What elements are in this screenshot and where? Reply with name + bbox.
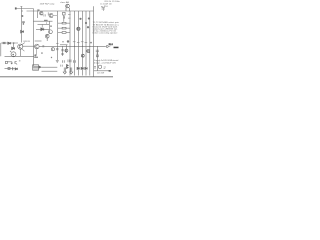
connector J1 input <box>15 7 17 9</box>
transistor Q3 <box>66 4 70 8</box>
wire vertical x74.5 <box>74 11 76 76</box>
wire x62.4 drop <box>61 46 63 56</box>
wire vertical x97.3 <box>96 46 98 71</box>
capacitor C2 <box>22 21 25 22</box>
wire y41 bias link <box>35 40 42 42</box>
transistor Q14 <box>87 50 90 53</box>
transistor Q11 <box>51 48 54 51</box>
capacitor C9 <box>96 50 99 51</box>
mark right of vertical <box>50 25 51 27</box>
ground bar under C6 <box>34 56 38 58</box>
wire vertical x63.8 <box>63 15 65 22</box>
svg-text:on R16: on R16 <box>101 6 109 8</box>
bar mark row2 <box>12 67 14 70</box>
transistor Q16 blob <box>79 18 81 20</box>
wire vertical x89.8 <box>89 11 91 76</box>
svg-text:before connecting speaker: before connecting speaker <box>93 32 118 35</box>
svg-text:10n 3W: 10n 3W <box>97 73 104 75</box>
diode D2 zener <box>41 28 44 31</box>
fuse F1 tiny <box>19 59 21 62</box>
transistor Q9 <box>18 44 23 49</box>
capacitor C5 electrolytic <box>11 52 16 57</box>
wire d1 row2 link <box>5 67 16 69</box>
resistor tick R20 <box>73 41 76 43</box>
mark x42 <box>41 52 42 54</box>
node D dot <box>62 41 63 42</box>
resistor tick R23 <box>85 42 88 44</box>
node A on input rail <box>22 10 23 11</box>
diode arrow A1 <box>63 68 66 75</box>
node H dot <box>51 57 52 58</box>
wire rail y24.4 <box>38 23 50 25</box>
resistor R11 <box>62 27 66 29</box>
resistor R1 zigzag <box>3 42 6 44</box>
diode D7 <box>77 67 79 69</box>
wire rail y29.4 <box>36 28 49 30</box>
node C junction <box>13 42 15 44</box>
resistor R12 <box>62 32 66 34</box>
rectifier bars <box>68 60 71 63</box>
transistor Q6 <box>45 34 49 38</box>
transistor Q8 on x78 <box>77 27 80 30</box>
diode D6 <box>39 66 41 68</box>
svg-text:class AB: class AB <box>60 1 69 4</box>
wire Q10 emitter drop <box>35 49 37 55</box>
wire x13.6 drop <box>13 43 15 48</box>
wire vertical x57.3 <box>56 11 58 60</box>
wire d1 row1 link <box>7 62 12 64</box>
resistor R5 on rail y21 <box>44 20 48 22</box>
wire input feed y43 <box>1 42 18 44</box>
wire vertical x33.4 <box>32 9 34 67</box>
wire vertical x86 <box>85 11 87 76</box>
transistor Q5 <box>49 30 53 34</box>
wire vertical x82.5 <box>82 11 84 76</box>
transistor Q1 <box>40 12 43 15</box>
transistor Q10 <box>35 44 40 49</box>
connector K1 row1 box <box>5 61 7 63</box>
terminal output circle <box>106 45 108 47</box>
wire vertical x70 <box>69 11 71 76</box>
transistor Q19 blob <box>88 18 90 20</box>
node F blob <box>90 42 92 44</box>
capacitor C6 on x33.4 <box>34 54 36 56</box>
diode D3 <box>8 42 11 44</box>
tick on rail <box>45 22 47 23</box>
resistor R24 under C9 <box>97 55 99 57</box>
resistor R4b <box>63 16 65 18</box>
switch S1 marks <box>15 61 17 64</box>
wire supply y67.2 <box>42 66 58 68</box>
capacitor C7 <box>61 50 63 51</box>
resistor R4 vertical <box>63 12 66 15</box>
svg-text:25W Hi-Fi amp: 25W Hi-Fi amp <box>40 3 55 5</box>
bridge BR1 triangles <box>67 64 69 66</box>
connector K2 row2 box <box>8 67 10 69</box>
svg-text:RL 8: RL 8 <box>109 44 113 46</box>
diode arrow A2 <box>70 68 73 75</box>
diode D4 <box>12 47 15 50</box>
node B dot <box>22 15 24 17</box>
transistor Q2 <box>49 14 53 18</box>
transistor Q13 <box>65 49 68 52</box>
wire vertical x78.5 <box>78 11 80 76</box>
wire y44.8 link <box>60 44 68 46</box>
border bottom line <box>0 76 113 78</box>
resistor tick R22 <box>81 41 84 43</box>
wire input line <box>17 8 34 10</box>
transistor Q18 blob <box>87 26 89 28</box>
wire vertical x37.5 <box>37 11 39 18</box>
resistor tick R21 <box>77 42 80 44</box>
transformer T1 winding <box>33 65 39 70</box>
wire top rail <box>27 10 94 12</box>
resistor R13 small on rail <box>42 45 44 47</box>
diode D1 <box>21 30 24 33</box>
capacitor C12 electrolytic <box>98 65 101 68</box>
wire Q2 collector <box>53 15 57 17</box>
capacitor C3 near Q1 <box>44 14 45 16</box>
wire Q9 to Q10 <box>22 45 34 47</box>
ground sym x57 <box>56 60 59 62</box>
capacitor C10 pair <box>63 60 65 63</box>
svg-text:bridge + 2x4700uF 40V: bridge + 2x4700uF 40V <box>94 62 117 64</box>
wire left loop vertical <box>0 43 2 56</box>
wire ground return y56.3 <box>5 55 35 57</box>
wire x66.4 drop <box>65 45 67 53</box>
diode D5 row2 <box>15 68 17 70</box>
marks right of C12 <box>104 67 106 68</box>
diode D9 <box>85 67 87 69</box>
node E blob <box>11 63 13 65</box>
transistor Q15 <box>81 54 84 57</box>
svg-text:BD139: BD139 <box>24 41 31 43</box>
wire top right drop <box>102 8 104 11</box>
wire vertical x49.3 <box>48 21 50 30</box>
resistor R10 <box>62 22 66 24</box>
resistor R3 stub <box>47 12 49 15</box>
tick on x57.3 <box>56 43 58 45</box>
capacitor C8 <box>61 53 63 54</box>
stub y18.1 <box>68 17 71 19</box>
transistor Q12 small <box>67 40 69 42</box>
wire bottom-right y70.8 <box>94 70 110 72</box>
wire q7 stub <box>46 38 48 41</box>
mark left of C12 <box>94 66 96 69</box>
node G marks <box>61 65 62 67</box>
capacitor C13 top right <box>102 8 105 9</box>
junction dots on rail <box>74 46 75 47</box>
transistor Q17 blob <box>85 22 87 24</box>
wire supply y71.2 <box>42 70 58 72</box>
wire q9 emitter drop <box>19 49 21 56</box>
wire rail y21 <box>33 20 52 22</box>
capacitor C11 pair <box>74 60 76 63</box>
stub y14.3 <box>68 13 71 15</box>
label output thick bar <box>114 47 119 49</box>
wire mid output rail <box>39 45 106 47</box>
resistor R2 on rail <box>37 9 39 11</box>
terminal blob right <box>109 70 111 72</box>
wire vertical x93.6 <box>93 6 95 77</box>
resistor R14 on x57.3 <box>56 48 58 50</box>
wire vertical input x21.3 <box>20 7 22 43</box>
diode D8 <box>81 67 83 69</box>
